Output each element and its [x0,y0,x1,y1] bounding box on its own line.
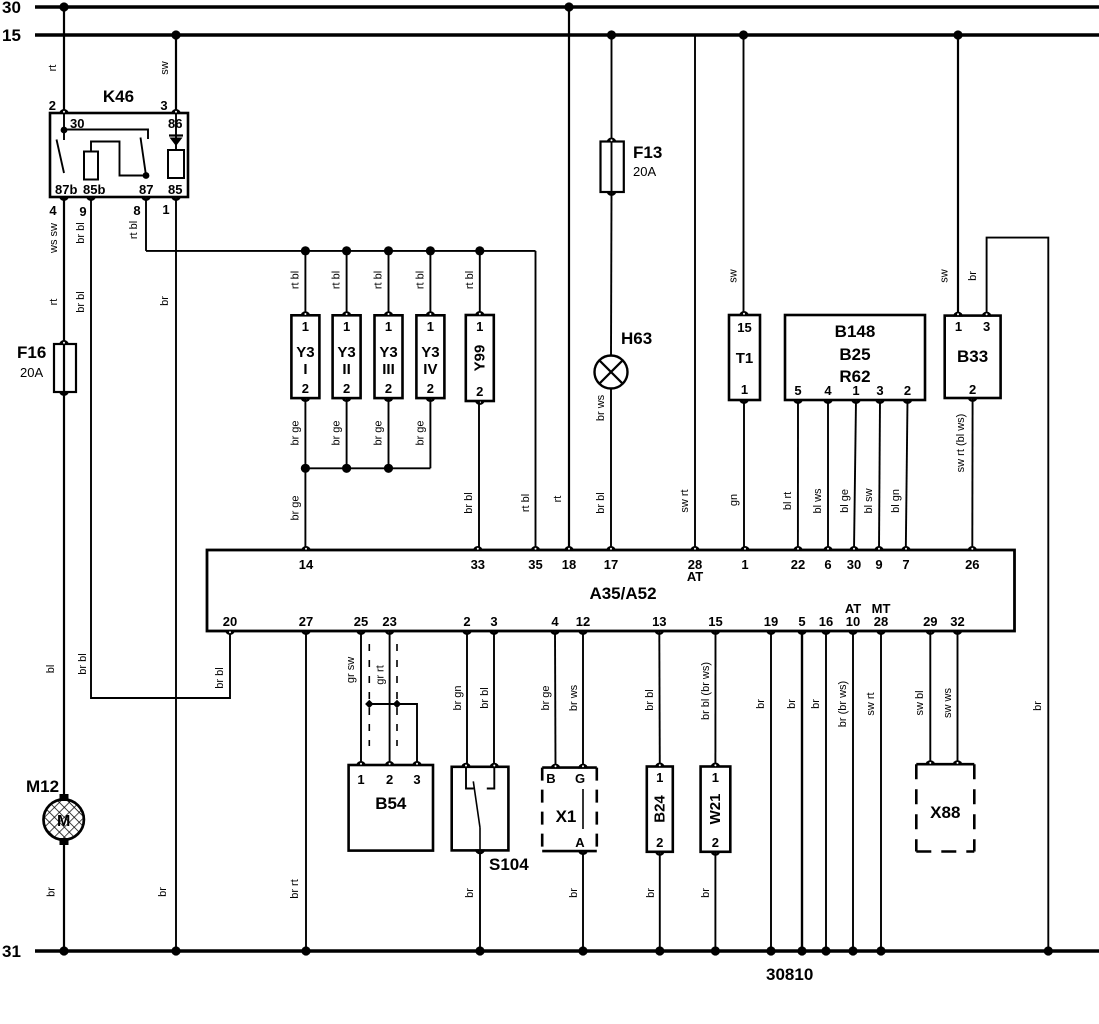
A35/A52 bottom pin 25 [356,630,366,635]
svg-text:B54: B54 [375,794,407,813]
bus 15 (terminal 15 supply rail) [35,33,1099,36]
sensor B54 [349,765,433,851]
K46 pin 8 terminal [141,196,151,201]
svg-text:6: 6 [824,557,831,572]
svg-text:AT: AT [687,569,703,584]
svg-text:br ws: br ws [595,394,607,421]
wire: bus 15 down to fuse F13 [611,35,613,142]
B148 pin 3 terminal [875,399,885,404]
svg-text:br ge: br ge [373,420,385,445]
wire br bl: Y99 pin 2 down to A35 pin 33 [478,401,480,550]
svg-text:26: 26 [965,557,979,572]
svg-text:sw rt: sw rt [865,692,877,715]
svg-text:M: M [57,813,70,830]
svg-text:rt bl: rt bl [289,271,301,289]
svg-text:2: 2 [427,381,434,396]
svg-text:MT: MT [872,601,891,616]
svg-text:br bl: br bl [75,222,87,243]
svg-text:14: 14 [299,557,314,572]
wire br: A35 pin 16 to bus 31 [825,631,827,951]
svg-text:30: 30 [2,0,21,17]
sensor B24 [647,767,673,852]
svg-text:85b: 85b [83,182,105,197]
svg-text:20A: 20A [633,164,656,179]
wire sw: bus 15 to K46 pin 3 [175,35,177,113]
node: junction of K46 pin3 wire on bus 15 [171,30,180,39]
svg-text:15: 15 [737,320,751,335]
node: rail junction above Y3 I [301,246,310,255]
svg-text:1: 1 [162,202,169,217]
svg-text:Y3: Y3 [379,344,397,361]
wire gn: T1 pin 1 down to A35 pin 1 [743,400,745,550]
wire bl rt: B148 pin 5 to A35 pin 22 [797,400,799,550]
wire rt bl: rail to Y99 pin 1 [479,251,481,315]
A35/A52 bottom pin 23 [385,630,395,635]
svg-text:87: 87 [139,182,153,197]
wire br: M12 to bus 31 [63,839,65,951]
wire br bl: K46 pin 9 down, over to A35 pin 20 [91,197,230,698]
svg-text:W21: W21 [707,794,724,825]
svg-text:Y3: Y3 [296,344,314,361]
A35/A52 bottom pin 29 [925,630,935,635]
node: junction on bus 15 for B33 pin 1 [953,30,962,39]
wire sw bl: A35 pin 29 down to X88 [929,631,931,764]
A35/A52 bottom pin 32 [953,630,963,635]
svg-text:B148: B148 [835,322,876,341]
wire ws sw / rt: K46 pin 4 down to fuse F16 [63,197,65,344]
svg-text:15: 15 [708,614,722,629]
svg-text:1: 1 [357,772,364,787]
svg-text:1: 1 [741,382,748,397]
K46 pin 1 terminal [171,196,181,201]
svg-text:br: br [700,888,712,898]
svg-text:rt: rt [48,299,60,306]
svg-text:M12: M12 [26,777,59,796]
svg-text:ws sw: ws sw [48,223,60,254]
wire br: K46 pin 1 down to bus 31 [175,197,177,951]
svg-text:sw: sw [159,61,171,75]
svg-text:bl sw: bl sw [863,488,875,513]
svg-text:br ge: br ge [331,420,343,445]
wire br: B24 pin 2 down to bus 31 [659,852,661,951]
svg-text:1: 1 [852,383,859,398]
svg-text:F13: F13 [633,143,662,162]
svg-text:III: III [382,361,395,378]
bus 31 (ground rail, bottom) [35,949,1099,952]
svg-text:1: 1 [427,319,434,334]
B148 pin 5 terminal [793,399,803,404]
svg-text:33: 33 [471,557,485,572]
svg-text:85: 85 [168,182,182,197]
svg-text:7: 7 [902,557,909,572]
svg-text:br bl: br bl [644,689,656,710]
wire br ge: A35 pin 4 down to X1 pin B [554,631,557,768]
wire br: W21 pin 2 down to bus 31 [714,852,716,951]
svg-text:19: 19 [764,614,778,629]
A35/A52 top pin 1 [740,546,750,551]
svg-text:br bl: br bl [75,291,87,312]
wire: solenoid supply rail (rt bl) [146,250,536,252]
svg-text:1: 1 [955,319,962,334]
svg-text:sw rt (bl ws): sw rt (bl ws) [955,414,967,473]
svg-text:rt bl: rt bl [128,221,140,239]
svg-text:12: 12 [576,614,590,629]
wire: alternate link over to B54 pin 3 [369,704,417,765]
wire br ge: return rail down to A35 pin 14 [304,468,306,550]
svg-text:4: 4 [824,383,832,398]
svg-text:4: 4 [49,203,57,218]
svg-text:5: 5 [794,383,801,398]
B148 pin 2 terminal [903,399,913,404]
A35/A52 bottom pin 13 [654,630,664,635]
svg-text:Y99: Y99 [472,345,489,372]
K46 internal: coil between 85b and contact [84,152,98,180]
svg-text:A: A [575,835,585,850]
A35/A52 top pin 14 [301,546,311,551]
svg-text:br bl: br bl [463,492,475,513]
B148 pin 4 terminal [823,399,833,404]
wire br: X1 pin A down to bus 31 [582,851,584,951]
svg-text:A35/A52: A35/A52 [589,584,656,603]
wire br gn: A35 pin 2 down to S104 [466,631,468,767]
svg-text:Y3: Y3 [337,344,355,361]
svg-text:87b: 87b [55,182,77,197]
wire rt bl: K46 pin 8 down to solenoid supply rail [145,197,147,251]
svg-text:sw: sw [728,269,740,283]
svg-text:gr rt: gr rt [375,665,387,685]
sensor block B148 B25 R62 [785,315,925,400]
wire sw ws: A35 pin 32 down to X88 [957,631,959,764]
svg-text:1: 1 [476,319,483,334]
solenoid valve Y3 IV [416,315,444,398]
svg-text:br ge: br ge [289,495,301,520]
A35/A52 top pin 18 [564,546,574,551]
A35/A52 top pin 26 [967,546,977,551]
svg-text:3: 3 [490,614,497,629]
wire br ws: A35 pin 12 down to X1 pin G [582,631,584,768]
sensor B33 [945,316,1001,398]
svg-text:2: 2 [463,614,470,629]
svg-text:9: 9 [79,204,86,219]
svg-text:rt bl: rt bl [373,271,385,289]
svg-text:31: 31 [2,942,21,961]
node: junction of K46 pin2 wire on bus 30 [59,2,68,11]
svg-text:S104: S104 [489,855,529,874]
svg-text:B33: B33 [957,347,988,366]
svg-text:3: 3 [413,772,420,787]
svg-text:X88: X88 [930,803,960,822]
wire gr sw: A35 pin 25 down to B54 pin 1 [360,631,362,765]
svg-text:br ge: br ge [414,420,426,445]
node: rail junctions on valve return rail [301,464,310,473]
svg-text:br: br [159,296,171,306]
svg-text:br: br [568,888,580,898]
connector X1 (dashed box) [542,766,597,769]
svg-text:rt: rt [47,65,59,72]
wire br bl: A35 pin 3 down to S104 [493,631,495,767]
svg-text:18: 18 [562,557,576,572]
svg-text:AT: AT [845,601,861,616]
node: K46 pin1 ground junction on bus 31 [171,946,180,955]
svg-text:rt bl: rt bl [414,271,426,289]
svg-text:4: 4 [551,614,559,629]
svg-text:3: 3 [983,319,990,334]
svg-text:35: 35 [528,557,542,572]
wire br rt: A35 pin 27 to bus 31 [305,631,307,951]
svg-text:28: 28 [874,614,888,629]
wire rt bl: rail to Y3 IV pin 1 [429,251,431,315]
A35/A52 bottom pin 5 [797,630,807,635]
svg-text:rt bl: rt bl [464,271,476,289]
node: X1 ground junction on bus 31 [578,946,587,955]
svg-text:15: 15 [2,26,21,45]
node: rail junction above Y99 [475,246,484,255]
wire rt: bus 30 down to A35 pin 18 [568,7,570,550]
svg-text:1: 1 [385,319,392,334]
svg-text:32: 32 [950,614,964,629]
node: rail junction above Y3 IV [426,246,435,255]
wire br bl: A35 pin 13 down to B24 pin 1 [658,631,661,767]
svg-text:2: 2 [49,98,56,113]
svg-text:sw ws: sw ws [942,688,954,718]
wire bl ge: B148 pin 1 to A35 pin 30 [854,400,856,550]
fuse F16 20A [63,344,65,392]
solenoid valve Y3 II [333,315,361,398]
svg-text:1: 1 [656,770,663,785]
svg-text:br: br [464,888,476,898]
svg-text:br bl (br ws): br bl (br ws) [700,662,712,720]
wire gr rt: A35 pin 23 down to B54 pin 2 [389,631,391,765]
A35/A52 bottom pin 19 [766,630,776,635]
svg-text:X1: X1 [556,807,577,826]
svg-text:2: 2 [385,381,392,396]
wire bl ws: B148 pin 4 to A35 pin 6 [827,400,829,550]
svg-text:bl gn: bl gn [890,489,902,513]
svg-text:br: br [157,887,169,897]
svg-text:gn: gn [728,494,740,506]
svg-text:br: br [786,699,798,709]
svg-text:G: G [575,771,585,786]
wire sw: bus 15 down to T1 pin 15 [743,35,745,315]
svg-text:IV: IV [423,361,437,378]
wire bl: F16 down to motor M12 [63,392,65,801]
wire rt bl: rail to Y3 I pin 1 [304,251,306,315]
K46 pin 2 terminal [59,109,69,114]
svg-text:sw rt: sw rt [679,489,691,512]
solenoid valve Y3 I [291,315,319,398]
A35/A52 top pin 30 [849,546,859,551]
svg-text:2: 2 [343,381,350,396]
svg-text:br bl: br bl [479,687,491,708]
switch S104 [452,767,509,851]
A35/A52 top pin 33 [473,546,483,551]
svg-text:br gn: br gn [452,685,464,710]
svg-text:br: br [755,699,767,709]
svg-text:T1: T1 [736,350,754,367]
A35/A52 bottom pin 10 [848,630,858,635]
svg-text:gr sw: gr sw [345,657,357,683]
A35/A52 bottom pin 27 [301,630,311,635]
wire: F13 down to lamp H63 [610,192,613,356]
wire br: A35 pin 19 to bus 31 [770,631,772,951]
wire: valve return rail (br ge) [305,467,430,469]
K46 pin 4 terminal [59,196,69,201]
A35/A52 top pin 9 [874,546,884,551]
svg-text:20: 20 [223,614,237,629]
node: M12 ground junction on bus 31 [59,946,68,955]
svg-text:br bl: br bl [214,667,226,688]
A35/A52 bottom pin 2 [462,630,472,635]
svg-text:22: 22 [791,557,805,572]
svg-text:H63: H63 [621,329,652,348]
node: B24 ground junction on bus 31 [655,946,664,955]
svg-text:10: 10 [846,614,860,629]
svg-text:rt bl: rt bl [520,494,532,512]
A35/A52 bottom pin 3 [489,630,499,635]
svg-text:br: br [1032,701,1044,711]
svg-text:bl ge: bl ge [839,489,851,513]
wire sw: bus 15 down to B33 pin 1 [957,35,959,316]
svg-text:1: 1 [343,319,350,334]
wire br: A35 pin 5 to bus 31 (thick) [801,631,803,951]
svg-text:B: B [546,771,555,786]
svg-text:br: br [46,887,58,897]
svg-text:bl rt: bl rt [782,492,794,510]
svg-text:br (br ws): br (br ws) [837,681,849,727]
svg-text:20A: 20A [20,365,43,380]
A35/A52 top pin 7 [901,546,911,551]
K46 pin 9 terminal [86,196,96,201]
svg-text:rt bl: rt bl [331,271,343,289]
wire rt bl: rail to Y3 III pin 1 [388,251,390,315]
svg-text:B24: B24 [652,795,669,823]
K46 internal: switch arm 87b (left, open contact) [57,140,65,174]
node: rail junction above Y3 II [342,246,351,255]
fuse F13 20A [611,142,613,193]
svg-text:br: br [810,699,822,709]
node: W21 ground junction on bus 31 [711,946,720,955]
relay K46 box [50,113,188,197]
wire br ws / br bl: H63 down to A35 pin 17 [610,389,612,551]
svg-text:2: 2 [969,382,976,397]
wire (dashed, alternate) left of B54 [368,644,370,746]
svg-text:23: 23 [382,614,396,629]
svg-text:2: 2 [904,383,911,398]
wire sw rt (bl ws): B33 pin 2 down to A35 pin 26 [971,398,973,550]
wire rt bl: rail down to A35 pin 35 [535,251,537,550]
wire br ge: Y3 valves pin 2 down to return rail [304,398,306,468]
svg-text:br: br [967,271,979,281]
A35/A52 top pin 22 [793,546,803,551]
wire rt: bus 30 to K46 pin 2 [63,7,65,113]
B148 pin 1 terminal [851,399,861,404]
K46 internal: relay coil 86-85 [168,150,184,178]
node: junction on bus 30 for A35 pin 18 wire [564,2,573,11]
svg-text:2: 2 [476,384,483,399]
svg-text:rt: rt [552,496,564,503]
wire br: S104 down to bus 31 [479,850,481,951]
svg-text:17: 17 [604,557,618,572]
svg-text:Y3: Y3 [421,344,439,361]
wire sw rt: A35 pin 28 to bus 31 [880,631,882,951]
svg-text:25: 25 [354,614,368,629]
svg-text:2: 2 [302,381,309,396]
wire br (br ws): A35 pin 10 to bus 31 [852,631,854,951]
svg-text:br ws: br ws [568,684,580,711]
solenoid valve Y3 III [375,315,403,398]
K46 internal: wire from 30 to contact 87 anchor [64,130,148,140]
wire sw rt: bus 15 down to A35 pin 28 [694,35,696,550]
svg-text:3: 3 [160,98,167,113]
svg-text:K46: K46 [103,87,134,106]
svg-text:1: 1 [302,319,309,334]
svg-text:8: 8 [133,203,140,218]
A35/A52 bottom pin 16 [821,630,831,635]
control unit A35/A52 [207,550,1015,631]
lamp W21 [701,767,731,852]
svg-text:30: 30 [847,557,861,572]
node: diamond junction on left dashed wire [365,700,373,708]
svg-text:9: 9 [875,557,882,572]
A35/A52 top pin 6 [823,546,833,551]
wire (dashed, alternate) right of B54 [396,644,398,746]
svg-text:bl: bl [45,665,57,674]
svg-text:br ge: br ge [289,420,301,445]
node: junction on bus 15 for T1 [739,30,748,39]
svg-text:27: 27 [299,614,313,629]
svg-text:29: 29 [923,614,937,629]
svg-text:br: br [645,888,657,898]
svg-text:16: 16 [819,614,833,629]
node: junction on bus 15 for fuse F13 [607,30,616,39]
solenoid valve Y99 [466,315,494,401]
svg-text:bl ws: bl ws [812,488,824,514]
node: pin 27 ground junction on bus 31 [301,946,310,955]
A35/A52 bottom pin 4 [550,630,560,635]
K46 internal: switch arm 87 with junction dot [141,138,147,176]
svg-text:1: 1 [741,557,748,572]
K46 pin 3 terminal [171,109,181,114]
svg-text:3: 3 [876,383,883,398]
svg-text:sw: sw [939,269,951,283]
A35/A52 bottom pin 20 [225,630,235,635]
svg-text:br bl: br bl [595,492,607,513]
svg-text:br rt: br rt [289,879,301,899]
wire rt bl: rail to Y3 II pin 1 [346,251,348,315]
svg-text:B25: B25 [839,345,870,364]
A35/A52 top pin 17 [606,546,616,551]
svg-text:13: 13 [652,614,666,629]
A35/A52 bottom pin 15 [711,630,721,635]
svg-text:2: 2 [656,835,663,850]
svg-text:30810: 30810 [766,965,813,984]
node: S104 ground junction on bus 31 [475,946,484,955]
svg-text:br ge: br ge [540,685,552,710]
K46 internal: wire coil top to contact 87 [91,142,146,176]
bus 30 (terminal 30 supply rail) [35,5,1099,8]
svg-text:II: II [342,361,350,378]
node: diamond junction on right dashed wire [393,700,401,708]
connector X88 (dashed box) [916,763,974,766]
svg-text:1: 1 [712,770,719,785]
node: junction of br wire on bus 31 (right) [1044,946,1053,955]
A35/A52 top pin 28 [690,546,700,551]
svg-text:2: 2 [712,835,719,850]
wire bl sw: B148 pin 3 to A35 pin 9 [879,400,880,550]
svg-text:I: I [303,361,307,378]
svg-text:sw bl: sw bl [914,690,926,715]
wire br bl (br ws): A35 pin 15 down to W21 pin 1 [714,631,716,767]
